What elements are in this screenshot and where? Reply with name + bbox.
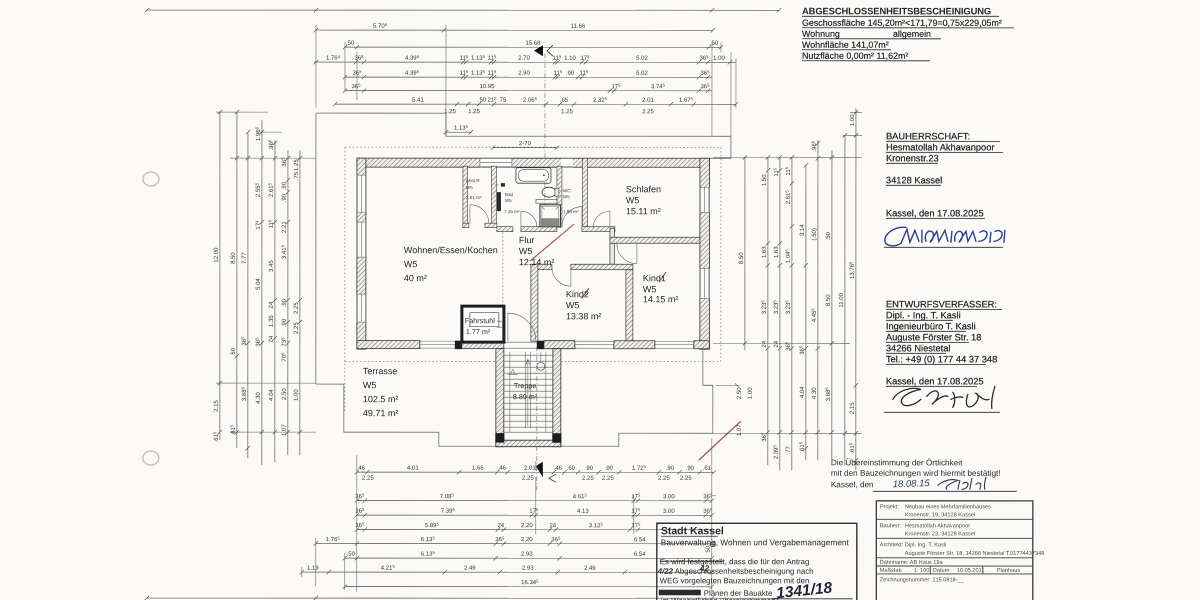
signature Akhavanpoor blue (885, 227, 1005, 246)
svg-text:2.21: 2.21 (282, 221, 288, 233)
svg-text:Maßstab: Maßstab (880, 568, 902, 574)
left dim 2.25 column (294, 150, 302, 455)
svg-text:2.25: 2.25 (642, 109, 654, 115)
wall Flur/Kind1 vertical (610, 228, 615, 264)
terrace upper overhang outline (316, 113, 731, 158)
svg-text:3.235: 3.235 (772, 300, 780, 315)
right dim 8.50 outer (824, 150, 834, 460)
window left wall 2 (357, 222, 366, 257)
left dim 8.50 (229, 110, 239, 448)
svg-text:2.15: 2.15 (214, 400, 220, 412)
svg-text:.50: .50 (347, 552, 356, 558)
svg-text:115: 115 (267, 219, 275, 228)
svg-text:Zeichnungsnummer: 215.0818-__: Zeichnungsnummer: 215.0818-__ (880, 577, 965, 583)
wall Kind2 top (538, 264, 633, 270)
svg-text:24: 24 (269, 335, 275, 342)
svg-text:2.70: 2.70 (518, 56, 530, 62)
stairwell wall left (496, 349, 504, 447)
dim 1.13 step (444, 124, 473, 134)
svg-text:4.215: 4.215 (381, 564, 396, 572)
punch hole top (143, 172, 159, 186)
svg-text:1.00: 1.00 (748, 387, 754, 399)
svg-text:1.50: 1.50 (762, 174, 768, 186)
exterior wall bottom under elevator (462, 342, 504, 349)
svg-text:11.00: 11.00 (839, 292, 845, 307)
section marker A bottom (536, 462, 543, 478)
exterior wall bottom segment C (614, 341, 655, 349)
svg-text:W5: W5 (404, 259, 418, 269)
door arc Kind2 (552, 267, 571, 286)
svg-text:Planhaus: Planhaus (997, 568, 1021, 574)
svg-text:11.66: 11.66 (571, 24, 586, 30)
svg-text:2.065: 2.065 (523, 96, 538, 104)
wall Schlafen bottom (610, 237, 700, 243)
dim line interior top (343, 69, 712, 79)
svg-text:49.71 m²: 49.71 m² (363, 408, 399, 418)
svg-text:1.35: 1.35 (269, 315, 275, 327)
svg-text:368: 368 (354, 54, 364, 62)
wall AbstR/Bad divider (491, 166, 496, 227)
pier left of elevator (455, 341, 462, 350)
radiator bath (497, 192, 501, 211)
svg-text:365: 365 (280, 157, 288, 167)
dim line 5.70/11.66 (314, 22, 715, 32)
wall AbstR bottom (463, 223, 497, 228)
svg-text:4.30: 4.30 (256, 392, 262, 404)
svg-text:2.01: 2.01 (642, 98, 654, 104)
svg-text:75: 75 (500, 98, 507, 104)
svg-text:.50: .50 (231, 347, 237, 356)
svg-text:Dateiname: AB Haus 19a: Dateiname: AB Haus 19a (880, 560, 944, 566)
svg-text:Wohnung: Wohnung (802, 29, 840, 39)
bottom dim 7.08 (355, 493, 714, 503)
svg-text:735: 735 (280, 337, 288, 347)
right dim 11.00 (839, 133, 847, 465)
dashed line flur boundary (502, 232, 504, 306)
svg-text:4.395: 4.395 (405, 54, 420, 62)
svg-text:2.93: 2.93 (522, 566, 534, 572)
svg-text:.75: .75 (294, 171, 300, 180)
svg-text:3.235: 3.235 (784, 300, 792, 315)
svg-text:2.25: 2.25 (294, 302, 300, 314)
handwritten initials signature (938, 477, 986, 489)
svg-text:1.25: 1.25 (561, 109, 573, 115)
svg-text:Kassel, den 17.08.2025: Kassel, den 17.08.2025 (886, 376, 984, 386)
svg-text:mit den Bauzeichnungen wird hi: mit den Bauzeichnungen wird hiermit best… (831, 469, 1001, 478)
window right wall 2 (700, 268, 710, 298)
svg-text:.90: .90 (686, 466, 695, 472)
svg-text:Kronenstr.23: Kronenstr.23 (886, 153, 939, 163)
right dim col 3 (784, 155, 794, 470)
svg-text:115: 115 (554, 69, 563, 77)
svg-text:4.04: 4.04 (269, 389, 275, 401)
svg-text:Es wird festgestellt, dass die: Es wird festgestellt, dass die für den A… (660, 557, 810, 566)
svg-text:1.07: 1.07 (737, 424, 743, 436)
svg-text:7.085: 7.085 (440, 493, 455, 501)
title block frame (876, 501, 1033, 600)
svg-text:2.25: 2.25 (658, 476, 670, 482)
left dim 12.00 (212, 110, 222, 443)
right dim 13.76 (848, 108, 858, 470)
svg-text:1.98 m²: 1.98 m² (563, 209, 579, 214)
svg-text:Datum: Datum (933, 568, 950, 574)
svg-text:Flur: Flur (519, 235, 535, 245)
svg-text:Nutzfläche 0,00m² 11,62m: Nutzfläche 0,00m² 11,62m² (802, 51, 908, 61)
svg-text:Auguste Förster Str. 18, 34266: Auguste Förster Str. 18, 34266 Niestetal… (905, 551, 1045, 557)
gap top wall (561, 158, 573, 167)
title block masstab cells (930, 566, 983, 574)
svg-text:2.325: 2.325 (593, 96, 608, 104)
svg-text:.90: .90 (605, 466, 614, 472)
svg-text:175: 175 (611, 83, 621, 91)
svg-text:W5: W5 (626, 195, 640, 205)
svg-text:1.10: 1.10 (564, 56, 576, 62)
svg-text:1.66: 1.66 (472, 466, 484, 472)
svg-text:2.25: 2.25 (362, 476, 374, 482)
svg-text:Dipl. - Ing. T. Kasli: Dipl. - Ing. T. Kasli (886, 310, 961, 320)
witness lines bottom (302, 438, 716, 592)
svg-text:im Wesentlichen übereinstimmen: im Wesentlichen übereinstimmen (661, 596, 776, 600)
svg-text:7.15 m²: 7.15 m² (504, 209, 520, 214)
door arc apartment entrance (508, 313, 536, 341)
exterior wall right (700, 158, 710, 349)
svg-text:W5: W5 (519, 246, 533, 256)
svg-text:6.135: 6.135 (421, 550, 436, 558)
svg-text:115: 115 (772, 167, 780, 176)
svg-text:175: 175 (580, 54, 590, 62)
svg-text:16.345: 16.345 (521, 579, 539, 587)
section dash line vertical (537, 53, 545, 490)
dashed upper-floor boundary (345, 147, 721, 412)
svg-text:365: 365 (699, 54, 709, 62)
dim line 5.41 row (333, 96, 738, 106)
svg-text:.61: .61 (703, 466, 712, 472)
svg-text:1: 100: 1: 100 (914, 568, 930, 574)
svg-text:(.50): (.50) (812, 228, 818, 240)
svg-text:Treppe: Treppe (514, 381, 537, 390)
stair triangle symbol (508, 369, 518, 375)
red slash Kind2 (582, 288, 589, 298)
svg-text:2.93: 2.93 (521, 552, 533, 558)
svg-text:8.50: 8.50 (739, 252, 745, 264)
svg-text:Bauverwaltung, Wohnen und Verg: Bauverwaltung, Wohnen und Vergabemanagem… (661, 537, 850, 547)
svg-text:.46: .46 (554, 466, 563, 472)
window bottom wall A (420, 341, 455, 348)
svg-text:4.395: 4.395 (405, 69, 420, 77)
svg-text:W5: W5 (505, 198, 512, 203)
wall Kind1/Kind2 divider (626, 270, 633, 341)
dim line 15.68 (343, 41, 723, 50)
svg-text:Kronenstr. 23, 34128 Kassel: Kronenstr. 23, 34128 Kassel (905, 531, 975, 537)
svg-text:2.615: 2.615 (784, 190, 792, 205)
svg-text:365: 365 (254, 337, 262, 347)
svg-text:1.00: 1.00 (850, 114, 856, 126)
door arc WC (562, 207, 582, 227)
stair treads (504, 352, 553, 432)
svg-text:2.61 m²: 2.61 m² (466, 195, 482, 200)
svg-text:8.50: 8.50 (826, 294, 832, 306)
svg-text:1.77 m²: 1.77 m² (466, 327, 491, 336)
svg-text:1.135: 1.135 (454, 124, 469, 132)
svg-text:13.765: 13.765 (848, 261, 856, 279)
svg-text:W5: W5 (563, 194, 570, 199)
stairwell pier right (552, 433, 561, 443)
svg-text:.90: .90 (282, 181, 288, 190)
svg-text:Kronenstr. 19, 34128 Kassel: Kronenstr. 19, 34128 Kassel (905, 512, 975, 518)
svg-text:4.01: 4.01 (407, 466, 419, 472)
svg-text:2.25: 2.25 (680, 476, 692, 482)
door arc Schlafen (593, 211, 610, 228)
signature T.Kasli black (893, 386, 995, 408)
svg-text:W5: W5 (363, 380, 377, 390)
right dim col 2 (772, 155, 782, 470)
svg-text:2.90: 2.90 (518, 71, 530, 77)
svg-text:102.5 m²: 102.5 m² (363, 394, 399, 404)
svg-text:Bad: Bad (505, 192, 514, 197)
wall Schlafen left (582, 158, 587, 227)
svg-text:4.455: 4.455 (810, 308, 818, 323)
svg-text:Wohnfläche 141,07m²: Wohnfläche 141,07m² (802, 40, 889, 50)
svg-text:6.135: 6.135 (421, 536, 436, 544)
svg-text:365: 365 (495, 536, 505, 544)
svg-text:BAUHERRSCHAFT:: BAUHERRSCHAFT: (886, 131, 970, 141)
svg-text:.46: .46 (498, 466, 507, 472)
svg-text:Tel.: +49 (0) 177 44 37 348: Tel.: +49 (0) 177 44 37 348 (886, 354, 997, 364)
svg-text:2.25: 2.25 (294, 322, 300, 334)
stair smoke symbol circle (537, 352, 545, 370)
svg-text:34128 Kassel: 34128 Kassel (886, 175, 942, 185)
svg-text:.50: .50 (478, 98, 487, 104)
stairwell wall right (553, 349, 561, 447)
svg-text:1.25: 1.25 (294, 159, 300, 171)
svg-text:8.89 m²: 8.89 m² (513, 392, 538, 401)
exterior wall bottom segment A (357, 341, 420, 349)
svg-text:365: 365 (703, 493, 713, 501)
valve symbol bath wall (495, 183, 505, 187)
door arc Kind1 (617, 244, 637, 264)
wall Bad right / WC niche left (557, 166, 562, 227)
svg-text:Auguste Förster Str. 18: Auguste Förster Str. 18 (886, 332, 982, 342)
svg-text:.50: .50 (346, 41, 355, 47)
window bottom wall B (575, 341, 614, 348)
svg-text:Die Übereinstimmung der Örtlic: Die Übereinstimmung der Örtlichkeit (831, 457, 963, 467)
witness ticks left (216, 112, 316, 432)
door arc AbstR (470, 205, 489, 224)
svg-text:3.45: 3.45 (269, 260, 275, 272)
svg-text:.90: .90 (282, 318, 288, 327)
overall bottom line (145, 596, 781, 600)
left dim column (280, 150, 290, 455)
svg-text:115: 115 (784, 166, 792, 175)
svg-text:14.15 m²: 14.15 m² (643, 294, 679, 304)
svg-text:.90: .90 (566, 71, 575, 77)
svg-text:15.11 m²: 15.11 m² (626, 206, 661, 216)
svg-text:Kind1: Kind1 (643, 273, 666, 283)
svg-text:2.555: 2.555 (254, 182, 262, 197)
bottom dim 5.89 (355, 522, 712, 532)
svg-text:10.05.2011: 10.05.2011 (957, 568, 985, 574)
right dim col 4 (798, 163, 808, 460)
svg-text:Schlafen: Schlafen (626, 184, 661, 194)
wall Flur top (below bath cluster) (497, 227, 615, 232)
svg-text:1.966: 1.966 (254, 126, 262, 141)
svg-text:365: 365 (784, 341, 792, 351)
window right wall 1 (700, 187, 710, 212)
svg-text:ABGESCHLOSSENHEITSBESCHEINIGUN: ABGESCHLOSSENHEITSBESCHEINIGUNG (802, 5, 991, 16)
svg-text:1.764: 1.764 (326, 54, 341, 62)
stairwell pier left (495, 433, 504, 443)
section marker A top (534, 45, 543, 56)
left dim 5.04 (254, 120, 264, 465)
svg-text:15.68: 15.68 (525, 41, 541, 47)
svg-text:6.54: 6.54 (634, 552, 646, 558)
svg-text:Ingenieurbüro T. Kasli: Ingenieurbüro T. Kasli (886, 321, 976, 331)
svg-text:.90: .90 (666, 466, 675, 472)
svg-text:Abst.R: Abst.R (466, 178, 480, 183)
entrance threshold (504, 342, 538, 348)
bathtub (516, 168, 551, 184)
svg-text:Neubau eines Mehrfamilienhause: Neubau eines Mehrfamilienhauses (905, 504, 991, 510)
svg-text:Architekt:: Architekt: (880, 542, 904, 548)
svg-text:3.14: 3.14 (800, 224, 806, 236)
bottom dim 2.49 row (300, 564, 714, 574)
exterior wall bottom segment B (544, 341, 575, 349)
svg-text:4.30: 4.30 (812, 387, 818, 399)
svg-text:1.19: 1.19 (307, 566, 319, 572)
svg-text:Terrasse: Terrasse (363, 366, 398, 376)
door arc Bad (521, 211, 537, 227)
svg-text:12.14 m²: 12.14 m² (519, 257, 555, 267)
svg-text:2-70: 2-70 (519, 141, 532, 147)
svg-text:WC: WC (563, 188, 571, 193)
red strike Flur (530, 224, 574, 261)
bottom dim 16.34 (343, 579, 714, 589)
svg-text:1.07: 1.07 (282, 424, 288, 436)
wall Kind2 left (531, 264, 538, 341)
wc bowl (542, 187, 559, 197)
svg-text:24: 24 (269, 301, 275, 308)
svg-text:10.95: 10.95 (479, 84, 495, 90)
svg-text:2.20: 2.20 (521, 523, 533, 529)
svg-text:2.395: 2.395 (772, 445, 780, 460)
svg-text:6.54: 6.54 (634, 537, 646, 543)
svg-text:3.685: 3.685 (240, 386, 248, 401)
svg-text:365: 365 (551, 536, 561, 544)
svg-text:Projekt:: Projekt: (880, 504, 899, 510)
svg-text:365: 365 (700, 83, 710, 91)
svg-text:.77: .77 (786, 445, 792, 454)
svg-text:1.675: 1.675 (679, 96, 694, 104)
dim line 10.95 (343, 83, 712, 93)
svg-text:ENTWURFSVERFASSER:: ENTWURFSVERFASSER: (886, 299, 997, 309)
svg-text:.46: .46 (357, 466, 366, 472)
svg-text:2.50: 2.50 (282, 388, 288, 400)
svg-text:2.15: 2.15 (850, 402, 856, 414)
bottom dim line windows (355, 464, 717, 474)
svg-text:.50: .50 (826, 231, 832, 240)
svg-text:Hesmatollah Akhavanpoor: Hesmatollah Akhavanpoor (886, 142, 995, 152)
svg-text:2.25: 2.25 (522, 476, 534, 482)
svg-text:1.63: 1.63 (774, 246, 780, 258)
svg-text:8.50: 8.50 (231, 252, 237, 264)
svg-text:.90: .90 (282, 298, 288, 307)
svg-text:2.01: 2.01 (524, 466, 536, 472)
svg-text:4.13: 4.13 (577, 509, 589, 515)
right dim col 1 (760, 155, 770, 465)
svg-text:3.745: 3.745 (651, 83, 666, 91)
svg-text:2.49: 2.49 (584, 566, 596, 572)
svg-text:1.765: 1.765 (326, 536, 341, 544)
svg-text:115: 115 (580, 69, 589, 77)
svg-text:Bauherr:: Bauherr: (880, 523, 902, 529)
pier right of entrance (537, 341, 544, 350)
washbasin shelf (536, 200, 557, 204)
svg-text:2.49: 2.49 (464, 566, 476, 572)
red curve terrace (699, 421, 741, 460)
right dim col 5 (810, 140, 820, 460)
svg-text:Fahrstuhl: Fahrstuhl (465, 316, 495, 325)
svg-text:.966: .966 (810, 140, 818, 151)
svg-text:.966: .966 (267, 139, 275, 150)
svg-text:5.41: 5.41 (412, 98, 424, 104)
svg-text:365: 365 (351, 83, 361, 91)
bottom dim 7.39 (355, 507, 714, 517)
svg-text:W5: W5 (466, 185, 473, 190)
red slash Kind1 (659, 272, 666, 282)
svg-text:1.25: 1.25 (468, 109, 480, 115)
exterior wall left (357, 158, 366, 349)
svg-text:.615: .615 (848, 442, 856, 453)
svg-text:13.38 m²: 13.38 m² (566, 311, 602, 321)
svg-text:705: 705 (280, 352, 288, 362)
left dim 3.45 (267, 139, 277, 462)
svg-text:5.705: 5.705 (373, 22, 388, 30)
svg-text:18.08.15: 18.08.15 (893, 478, 931, 490)
svg-text:3.235: 3.235 (760, 300, 768, 315)
svg-text:24: 24 (774, 340, 780, 347)
svg-text:.615: .615 (798, 441, 806, 452)
svg-text:115: 115 (553, 54, 562, 62)
svg-text:24: 24 (762, 340, 768, 347)
svg-text:3.125: 3.125 (589, 522, 604, 530)
svg-text:.60: .60 (567, 466, 576, 472)
svg-text:1.00: 1.00 (294, 389, 300, 401)
svg-text:42: 42 (699, 563, 710, 573)
svg-text:24: 24 (497, 523, 504, 529)
stairwell wall bottom (496, 440, 561, 447)
dim line wall openings top (314, 54, 736, 64)
svg-text:4.04: 4.04 (800, 386, 806, 398)
svg-text:Stadt Kassel: Stadt Kassel (661, 525, 724, 537)
svg-text:24: 24 (549, 523, 556, 529)
svg-text:.615: .615 (229, 424, 237, 435)
svg-text:4.615: 4.615 (573, 493, 588, 501)
svg-text:W5: W5 (566, 300, 580, 310)
svg-text:Wohnen/Essen/Kochen: Wohnen/Essen/Kochen (404, 245, 498, 255)
overall top line (145, 8, 781, 13)
svg-text:Kassel, den 17.08.2025: Kassel, den 17.08.2025 (886, 208, 984, 218)
svg-text:2.25: 2.25 (602, 476, 614, 482)
elevator Fahrstuhl (462, 306, 504, 342)
window top wall (480, 158, 512, 167)
svg-text:7.77: 7.77 (242, 252, 248, 264)
svg-text:1.135: 1.135 (471, 54, 486, 62)
bottom dim 6.13 a (314, 536, 714, 546)
svg-text:365: 365 (700, 69, 710, 77)
svg-text:2.25: 2.25 (582, 476, 594, 482)
shower (540, 205, 561, 227)
right dim 8.50 inner (739, 155, 747, 350)
